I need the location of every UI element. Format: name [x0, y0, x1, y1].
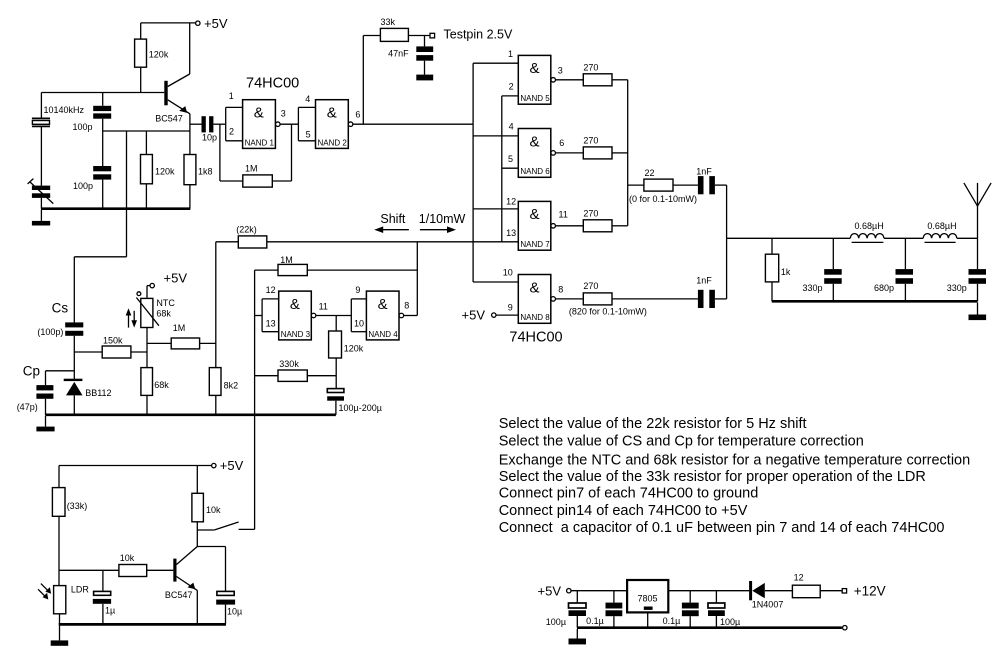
- svg-text:1M: 1M: [245, 164, 258, 174]
- svg-text:5: 5: [306, 130, 311, 140]
- thermistor NTC 68k: [136, 286, 175, 368]
- svg-text:1k8: 1k8: [198, 166, 213, 176]
- wire 100p junction to emitter node: [103, 130, 190, 132]
- capacitor 1nF (lower): [696, 275, 726, 308]
- svg-text:1M: 1M: [173, 323, 186, 333]
- wire 7805 out: [668, 590, 749, 592]
- wire ground rail (middle): [45, 413, 336, 416]
- svg-text:4: 4: [509, 121, 514, 131]
- svg-text:Testpin 2.5V: Testpin 2.5V: [444, 28, 513, 42]
- svg-text:330p: 330p: [802, 283, 822, 293]
- svg-text:LDR: LDR: [71, 585, 90, 595]
- svg-text:12: 12: [506, 196, 516, 206]
- svg-text:1/10mW: 1/10mW: [419, 212, 466, 226]
- wire NAND5 out: [556, 79, 584, 81]
- svg-text:+5V: +5V: [204, 16, 228, 31]
- svg-text:(33k): (33k): [67, 501, 88, 511]
- capacitor 0.1u (PSU output): [663, 591, 699, 628]
- svg-text:&: &: [378, 296, 388, 313]
- svg-text:1µ: 1µ: [105, 605, 115, 615]
- svg-text:1: 1: [508, 49, 513, 59]
- node Testpin 2.5V: [430, 28, 513, 42]
- svg-text:NAND 7: NAND 7: [520, 240, 550, 249]
- wire NAND3 out: [316, 315, 351, 317]
- svg-text:1N4007: 1N4007: [752, 599, 784, 609]
- svg-text:Select the value of the 22k re: Select the value of the 22k resistor for…: [499, 416, 807, 432]
- wire filter ground rail: [772, 300, 978, 303]
- capacitor 100u-200u electrolytic: [327, 389, 382, 415]
- wire 120k to base rail: [140, 67, 142, 92]
- svg-text:+5V: +5V: [538, 583, 562, 598]
- svg-text:(47p): (47p): [17, 402, 38, 412]
- svg-text:10: 10: [354, 319, 364, 329]
- op NAND 8: [503, 268, 564, 324]
- svg-text:(100p): (100p): [37, 327, 63, 337]
- svg-text:100p: 100p: [73, 181, 93, 191]
- capacitor 100p (lower): [73, 166, 111, 209]
- node +5V terminal (top-left): [141, 16, 228, 31]
- capacitor trimmer (variable): [28, 179, 54, 209]
- svg-text:&: &: [254, 105, 264, 122]
- resistor 10k (base): [119, 553, 173, 576]
- wire oscillator base horizontal: [41, 92, 164, 94]
- resistor (22k): [216, 224, 519, 248]
- svg-text:Connect pin7 of each 74HC00 to: Connect pin7 of each 74HC00 to ground: [499, 485, 759, 501]
- svg-text:1nF: 1nF: [696, 167, 712, 177]
- transistor Q2 BC547: [165, 547, 197, 625]
- resistor 270 (NAND5): [583, 63, 627, 86]
- resistor 270 (NAND8): [569, 281, 698, 316]
- resistor 8k2: [209, 242, 238, 415]
- ground (oscillator): [32, 210, 50, 226]
- transistor Q1 BC547: [155, 23, 190, 131]
- wire NAND4 out up to keying line: [416, 242, 418, 316]
- svg-text:330k: 330k: [279, 359, 299, 369]
- resistor 10k (collector load): [192, 466, 221, 531]
- svg-text:NAND 4: NAND 4: [368, 330, 398, 339]
- svg-text:68k: 68k: [156, 308, 171, 318]
- ground (filter): [969, 303, 987, 321]
- svg-text:1: 1: [229, 91, 234, 101]
- capacitor 0.1u (PSU input): [586, 591, 622, 628]
- svg-text:BC547: BC547: [165, 590, 193, 600]
- svg-text:Select the value of the 33k re: Select the value of the 33k resistor for…: [499, 469, 926, 485]
- wire LDR node horizontal: [59, 569, 119, 571]
- resistor 1k8: [184, 131, 213, 209]
- wire NAND1 out: [280, 123, 298, 125]
- svg-text:270: 270: [583, 63, 598, 73]
- svg-text:2: 2: [509, 82, 514, 92]
- capacitor 10u electrolytic: [216, 591, 242, 624]
- svg-text:&: &: [529, 133, 539, 150]
- svg-text:5: 5: [508, 154, 513, 164]
- node PSU return terminal: [843, 626, 847, 630]
- node +5V NTC: [147, 270, 187, 287]
- svg-text:&: &: [290, 296, 300, 313]
- op NAND 7: [506, 196, 568, 250]
- svg-text:10: 10: [503, 268, 513, 278]
- svg-text:120k: 120k: [344, 343, 364, 353]
- node +12V terminal: [842, 584, 885, 599]
- ground (PSU): [569, 629, 587, 644]
- svg-text:(820 for 0.1-10mW): (820 for 0.1-10mW): [569, 306, 647, 316]
- resistor 1M (NAND3/4): [255, 255, 418, 276]
- wire collector node to 10u: [197, 530, 225, 591]
- ground (LDR section): [51, 626, 68, 646]
- svg-text:Exchange the NTC and 68k resis: Exchange the NTC and 68k resistor for a …: [499, 452, 971, 468]
- wire +5V to 120k: [140, 23, 142, 39]
- svg-text:NAND 2: NAND 2: [318, 138, 348, 147]
- svg-text:1nF: 1nF: [696, 275, 712, 285]
- svg-text:0.1µ: 0.1µ: [663, 616, 681, 626]
- inductor 0.68uH (second): [923, 221, 957, 243]
- wire oscillator node down to Cs: [74, 257, 126, 323]
- svg-text:100p: 100p: [72, 122, 92, 132]
- resistor 1M feedback NAND1: [220, 124, 292, 187]
- svg-text:7805: 7805: [638, 593, 658, 603]
- diode BB112 varicap: [64, 379, 112, 415]
- svg-text:&: &: [529, 60, 539, 77]
- svg-text:0.68µH: 0.68µH: [927, 221, 956, 231]
- svg-text:11: 11: [319, 302, 328, 312]
- svg-text:Connect a capacitor of 0.1 uF: Connect a capacitor of 0.1 uF between pi…: [499, 520, 945, 536]
- svg-text:0.68µH: 0.68µH: [855, 221, 884, 231]
- wire NAND7 out: [556, 225, 584, 227]
- switch (shift select): [197, 522, 254, 530]
- resistor 22: [628, 168, 698, 204]
- svg-text:10140kHz: 10140kHz: [44, 105, 85, 115]
- svg-text:10k: 10k: [206, 505, 221, 515]
- resistor 12: [792, 572, 842, 597]
- resistor 1M (NTC to 8k2): [147, 323, 216, 349]
- wire bus A (oscillator signal to gate inputs): [473, 63, 518, 282]
- svg-text:100µ: 100µ: [720, 617, 740, 627]
- svg-text:9: 9: [355, 285, 360, 295]
- wire bus F (NAND3 input bus down to switch): [254, 270, 256, 529]
- op NAND 1 (74HC00 gate): [226, 91, 286, 148]
- svg-text:Cs: Cs: [52, 301, 69, 316]
- regulator U1 7805: [627, 580, 668, 628]
- svg-text:8: 8: [558, 284, 563, 294]
- wire PSU ground rail: [577, 626, 842, 629]
- svg-text:12: 12: [266, 285, 276, 295]
- svg-text:11: 11: [559, 210, 568, 220]
- svg-text:+5V: +5V: [164, 270, 188, 285]
- wire NAND6 out: [556, 152, 584, 154]
- ground (47nF): [416, 75, 433, 81]
- inductor 0.68uH (first): [850, 221, 884, 243]
- label Shift / 1/10mW arrows: [374, 212, 465, 233]
- svg-text:120k: 120k: [155, 167, 175, 177]
- capacitor Cp (47p): [17, 363, 75, 414]
- resistor 68k: [141, 368, 169, 415]
- svg-text:BB112: BB112: [85, 388, 111, 398]
- svg-text:3: 3: [558, 65, 563, 75]
- wire bus B (keying signal to gate inputs): [502, 96, 519, 242]
- svg-text:1k: 1k: [781, 267, 791, 277]
- svg-text:68k: 68k: [154, 380, 169, 390]
- svg-text:120k: 120k: [149, 50, 169, 60]
- svg-text:6: 6: [355, 110, 360, 120]
- svg-text:9: 9: [508, 303, 513, 313]
- wire NAND2 out to NAND5-8 bus: [353, 123, 473, 125]
- svg-text:6: 6: [559, 138, 564, 148]
- svg-text:150k: 150k: [103, 335, 123, 345]
- capacitor 100p (upper): [72, 93, 111, 167]
- svg-text:Select the value of CS and Cp: Select the value of CS and Cp for temper…: [499, 434, 864, 450]
- capacitor 100u (PSU right): [708, 591, 740, 628]
- op NAND 2 (74HC00 gate): [298, 94, 360, 148]
- svg-text:NAND 6: NAND 6: [520, 167, 550, 176]
- svg-text:8: 8: [404, 300, 409, 310]
- svg-text:Shift: Shift: [380, 212, 406, 226]
- node +5V NAND8 pin9: [462, 308, 519, 323]
- capacitor 10p coupling: [190, 116, 226, 142]
- wire NAND4 out: [404, 315, 418, 317]
- svg-text:270: 270: [583, 208, 598, 218]
- capacitor 1nF (upper): [696, 167, 726, 195]
- svg-text:NAND 8: NAND 8: [520, 313, 550, 322]
- photoresistor LDR: [38, 584, 89, 625]
- svg-text:Cp: Cp: [23, 363, 40, 378]
- wire bus C (270 outputs common): [627, 80, 629, 226]
- svg-text:74HC00: 74HC00: [509, 330, 562, 346]
- svg-text:NTC: NTC: [156, 298, 175, 308]
- resistor 270 (NAND6): [583, 136, 627, 159]
- resistor 120k (oscillator top): [135, 39, 169, 67]
- svg-text:100µ: 100µ: [546, 617, 566, 627]
- resistor 33k testpin: [363, 17, 430, 124]
- resistor 120k (bias lower): [141, 131, 176, 209]
- svg-text:NAND 5: NAND 5: [520, 94, 550, 103]
- svg-text:&: &: [327, 105, 337, 122]
- resistor 120k (NAND3/4 timing): [329, 316, 364, 389]
- svg-text:0.1µ: 0.1µ: [586, 616, 604, 626]
- resistor 150k: [74, 335, 147, 358]
- svg-text:10k: 10k: [120, 553, 135, 563]
- antenna: [964, 183, 991, 238]
- op NAND 5: [508, 49, 563, 104]
- svg-text:74HC00: 74HC00: [246, 76, 299, 92]
- svg-text:330p: 330p: [947, 283, 967, 293]
- capacitor 330p (second): [947, 238, 986, 301]
- node +5V (LDR section): [59, 458, 244, 473]
- svg-text:270: 270: [583, 136, 598, 146]
- svg-text:Connect pin14 of each 74HC00 t: Connect pin14 of each 74HC00 to +5V: [499, 503, 748, 519]
- svg-text:10µ: 10µ: [227, 606, 242, 616]
- svg-text:270: 270: [583, 281, 598, 291]
- svg-text:(22k): (22k): [236, 224, 257, 234]
- svg-text:13: 13: [506, 228, 516, 238]
- resistor 330k: [255, 359, 337, 381]
- capacitor 1u electrolytic: [93, 570, 115, 624]
- svg-text:2: 2: [229, 127, 234, 137]
- arrows temperature up/down: [126, 308, 137, 327]
- svg-text:4: 4: [305, 94, 310, 104]
- wire filter main line: [727, 237, 978, 239]
- resistor (33k): [52, 466, 87, 586]
- svg-text:&: &: [529, 206, 539, 223]
- svg-text:10p: 10p: [202, 132, 217, 142]
- svg-text:+5V: +5V: [220, 458, 244, 473]
- wire NAND8 out: [556, 298, 584, 300]
- svg-text:47nF: 47nF: [388, 48, 409, 58]
- op NAND 4: [351, 285, 409, 340]
- op NAND 3: [255, 285, 328, 340]
- diode 1N4007: [749, 581, 792, 609]
- svg-text:NAND 3: NAND 3: [281, 330, 311, 339]
- svg-text:33k: 33k: [381, 17, 396, 27]
- wire ground rail (oscillator): [41, 207, 190, 210]
- wire ground rail (LDR section): [59, 623, 226, 626]
- svg-text:13: 13: [266, 319, 276, 329]
- svg-text:12: 12: [794, 572, 804, 582]
- capacitor Cs (100p): [37, 301, 83, 380]
- svg-text:BC547: BC547: [155, 113, 183, 123]
- label notes: [499, 416, 971, 536]
- resistor 1k: [765, 238, 791, 301]
- wire bus D (1nF outputs join): [726, 185, 728, 299]
- capacitor 330p (first): [802, 238, 841, 301]
- svg-text:(0 for 0.1-10mW): (0 for 0.1-10mW): [629, 194, 697, 204]
- crystal 10140kHz: [32, 93, 85, 186]
- svg-text:8k2: 8k2: [224, 380, 239, 390]
- svg-text:22: 22: [645, 168, 655, 178]
- resistor 270 (NAND7): [583, 208, 627, 231]
- ground (middle rail): [36, 416, 54, 432]
- svg-text:+12V: +12V: [854, 584, 886, 599]
- capacitor 680p: [874, 238, 913, 301]
- op NAND 6: [508, 121, 564, 177]
- node +5V (PSU out): [538, 583, 628, 598]
- capacitor 100u (PSU left): [546, 591, 586, 628]
- svg-text:680p: 680p: [874, 283, 894, 293]
- svg-text:3: 3: [281, 109, 286, 119]
- svg-text:+5V: +5V: [462, 308, 486, 323]
- svg-text:100µ-200µ: 100µ-200µ: [339, 403, 382, 413]
- svg-text:&: &: [529, 279, 539, 296]
- svg-text:1M: 1M: [280, 255, 293, 265]
- capacitor 47nF: [388, 36, 433, 75]
- wire down to varicap section: [126, 131, 128, 257]
- svg-text:NAND 1: NAND 1: [245, 138, 275, 147]
